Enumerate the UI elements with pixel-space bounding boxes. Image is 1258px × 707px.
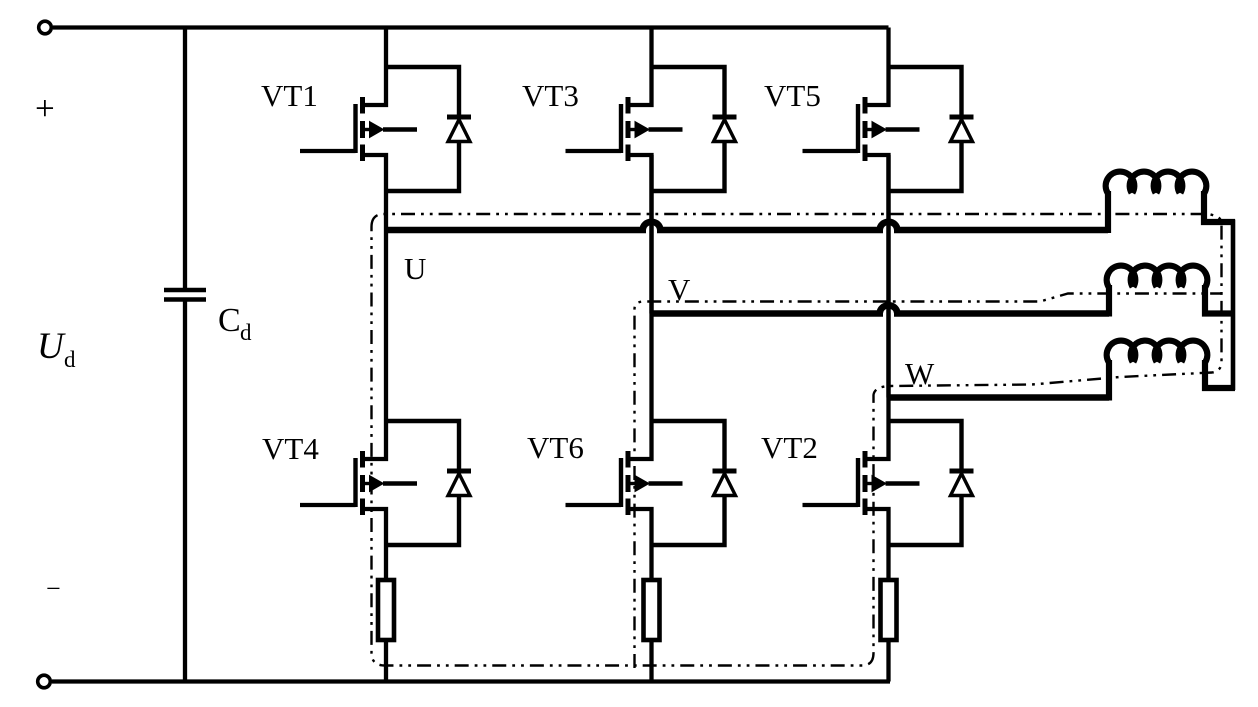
- wire: VT1 source branch: [365, 155, 386, 230]
- resistor R1 (leg 1 shunt): [378, 580, 394, 640]
- wire: VT5 drain branch: [868, 28, 889, 106]
- inductor phase U winding: [1106, 172, 1235, 233]
- wire: capacitor top lead: [183, 28, 187, 289]
- wire: VT4 drain branch: [365, 230, 386, 459]
- wire: VT5 gate lead: [803, 149, 859, 153]
- svg-text:U: U: [37, 326, 66, 367]
- wire: VT6 gate lead: [566, 503, 622, 507]
- wire: bottom DC- rail: [52, 679, 890, 683]
- wire: VT1 diode bracket: [386, 67, 459, 191]
- wire: VT6 drain branch: [631, 314, 652, 460]
- wire: VT1 gate lead: [300, 149, 356, 153]
- wire: R2 to DC- rail: [649, 640, 653, 682]
- wire: VT4 gate lead: [300, 503, 356, 507]
- body diode of VT1: [447, 117, 471, 142]
- wire: top DC+ rail: [53, 25, 889, 29]
- wire: VT2 gate lead: [803, 503, 859, 507]
- svg-text:+: +: [35, 89, 55, 128]
- svg-text:VT4: VT4: [262, 431, 319, 466]
- body diode of VT5: [950, 117, 974, 142]
- svg-text:d: d: [240, 320, 252, 345]
- svg-text:VT6: VT6: [527, 430, 584, 465]
- svg-text:VT1: VT1: [261, 78, 318, 113]
- transistor VT2 (MOSFET): [858, 451, 920, 515]
- wire: VT2 source branch: [868, 509, 889, 580]
- wire: VT5 diode bracket: [889, 67, 962, 191]
- positive DC input terminal: [39, 21, 52, 34]
- current measurement loop (dash-dot, U/W path): [372, 214, 1222, 666]
- node U phase output wire (thick): [386, 222, 1108, 230]
- transistor VT6 (MOSFET): [621, 451, 683, 515]
- capacitor Cd plates: [164, 290, 206, 300]
- transistor VT5 (MOSFET): [858, 97, 920, 161]
- wire: leg2 vertical through U node: [649, 155, 653, 314]
- body diode of VT4: [447, 471, 471, 496]
- wire: VT5 source branch: [868, 155, 889, 398]
- svg-text:VT3: VT3: [522, 78, 579, 113]
- wire: VT6 diode bracket: [652, 421, 725, 545]
- wire: VT3 drain branch: [631, 28, 652, 106]
- resistor R3 (leg 3 shunt): [881, 580, 897, 640]
- wire: leg3 vertical through U,V nodes: [886, 155, 890, 398]
- body diode of VT6: [713, 471, 737, 496]
- wire: VT3 diode bracket: [652, 67, 725, 191]
- svg-text:d: d: [64, 347, 76, 372]
- wire: VT2 diode bracket: [889, 421, 962, 545]
- svg-text:C: C: [218, 302, 241, 339]
- wire: VT6 source branch: [631, 509, 652, 580]
- wire: VT2 drain branch: [868, 398, 889, 460]
- wire: neutral bus: [1231, 220, 1236, 391]
- wire: VT4 source branch: [365, 509, 386, 580]
- body diode of VT2: [950, 471, 974, 496]
- transistor VT1 (MOSFET): [356, 97, 418, 161]
- wire: capacitor bottom lead: [183, 302, 187, 682]
- wire: R1 to DC- rail: [384, 640, 388, 682]
- inductor phase V winding: [1107, 266, 1235, 317]
- negative DC input terminal: [38, 675, 51, 688]
- svg-text:−: −: [46, 574, 61, 603]
- node V phase output wire (thick): [652, 305, 1110, 313]
- wire: VT4 diode bracket: [386, 421, 459, 545]
- node W phase output wire (thick): [889, 394, 1110, 401]
- svg-text:VT2: VT2: [761, 430, 818, 465]
- resistor R2 (leg 2 shunt): [644, 580, 660, 640]
- transistor VT4 (MOSFET): [356, 451, 418, 515]
- wire: R3 to DC- rail: [886, 640, 890, 682]
- current measurement loop V branch (dash-dot): [635, 294, 1222, 669]
- transistor VT3 (MOSFET): [621, 97, 683, 161]
- svg-text:U: U: [404, 251, 426, 286]
- inductor phase W winding: [1107, 341, 1235, 401]
- wire: VT1 drain branch: [365, 28, 386, 106]
- body diode of VT3: [713, 117, 737, 142]
- wire: VT3 gate lead: [566, 149, 622, 153]
- svg-text:VT5: VT5: [764, 78, 821, 113]
- wire: VT3 source branch: [631, 155, 652, 314]
